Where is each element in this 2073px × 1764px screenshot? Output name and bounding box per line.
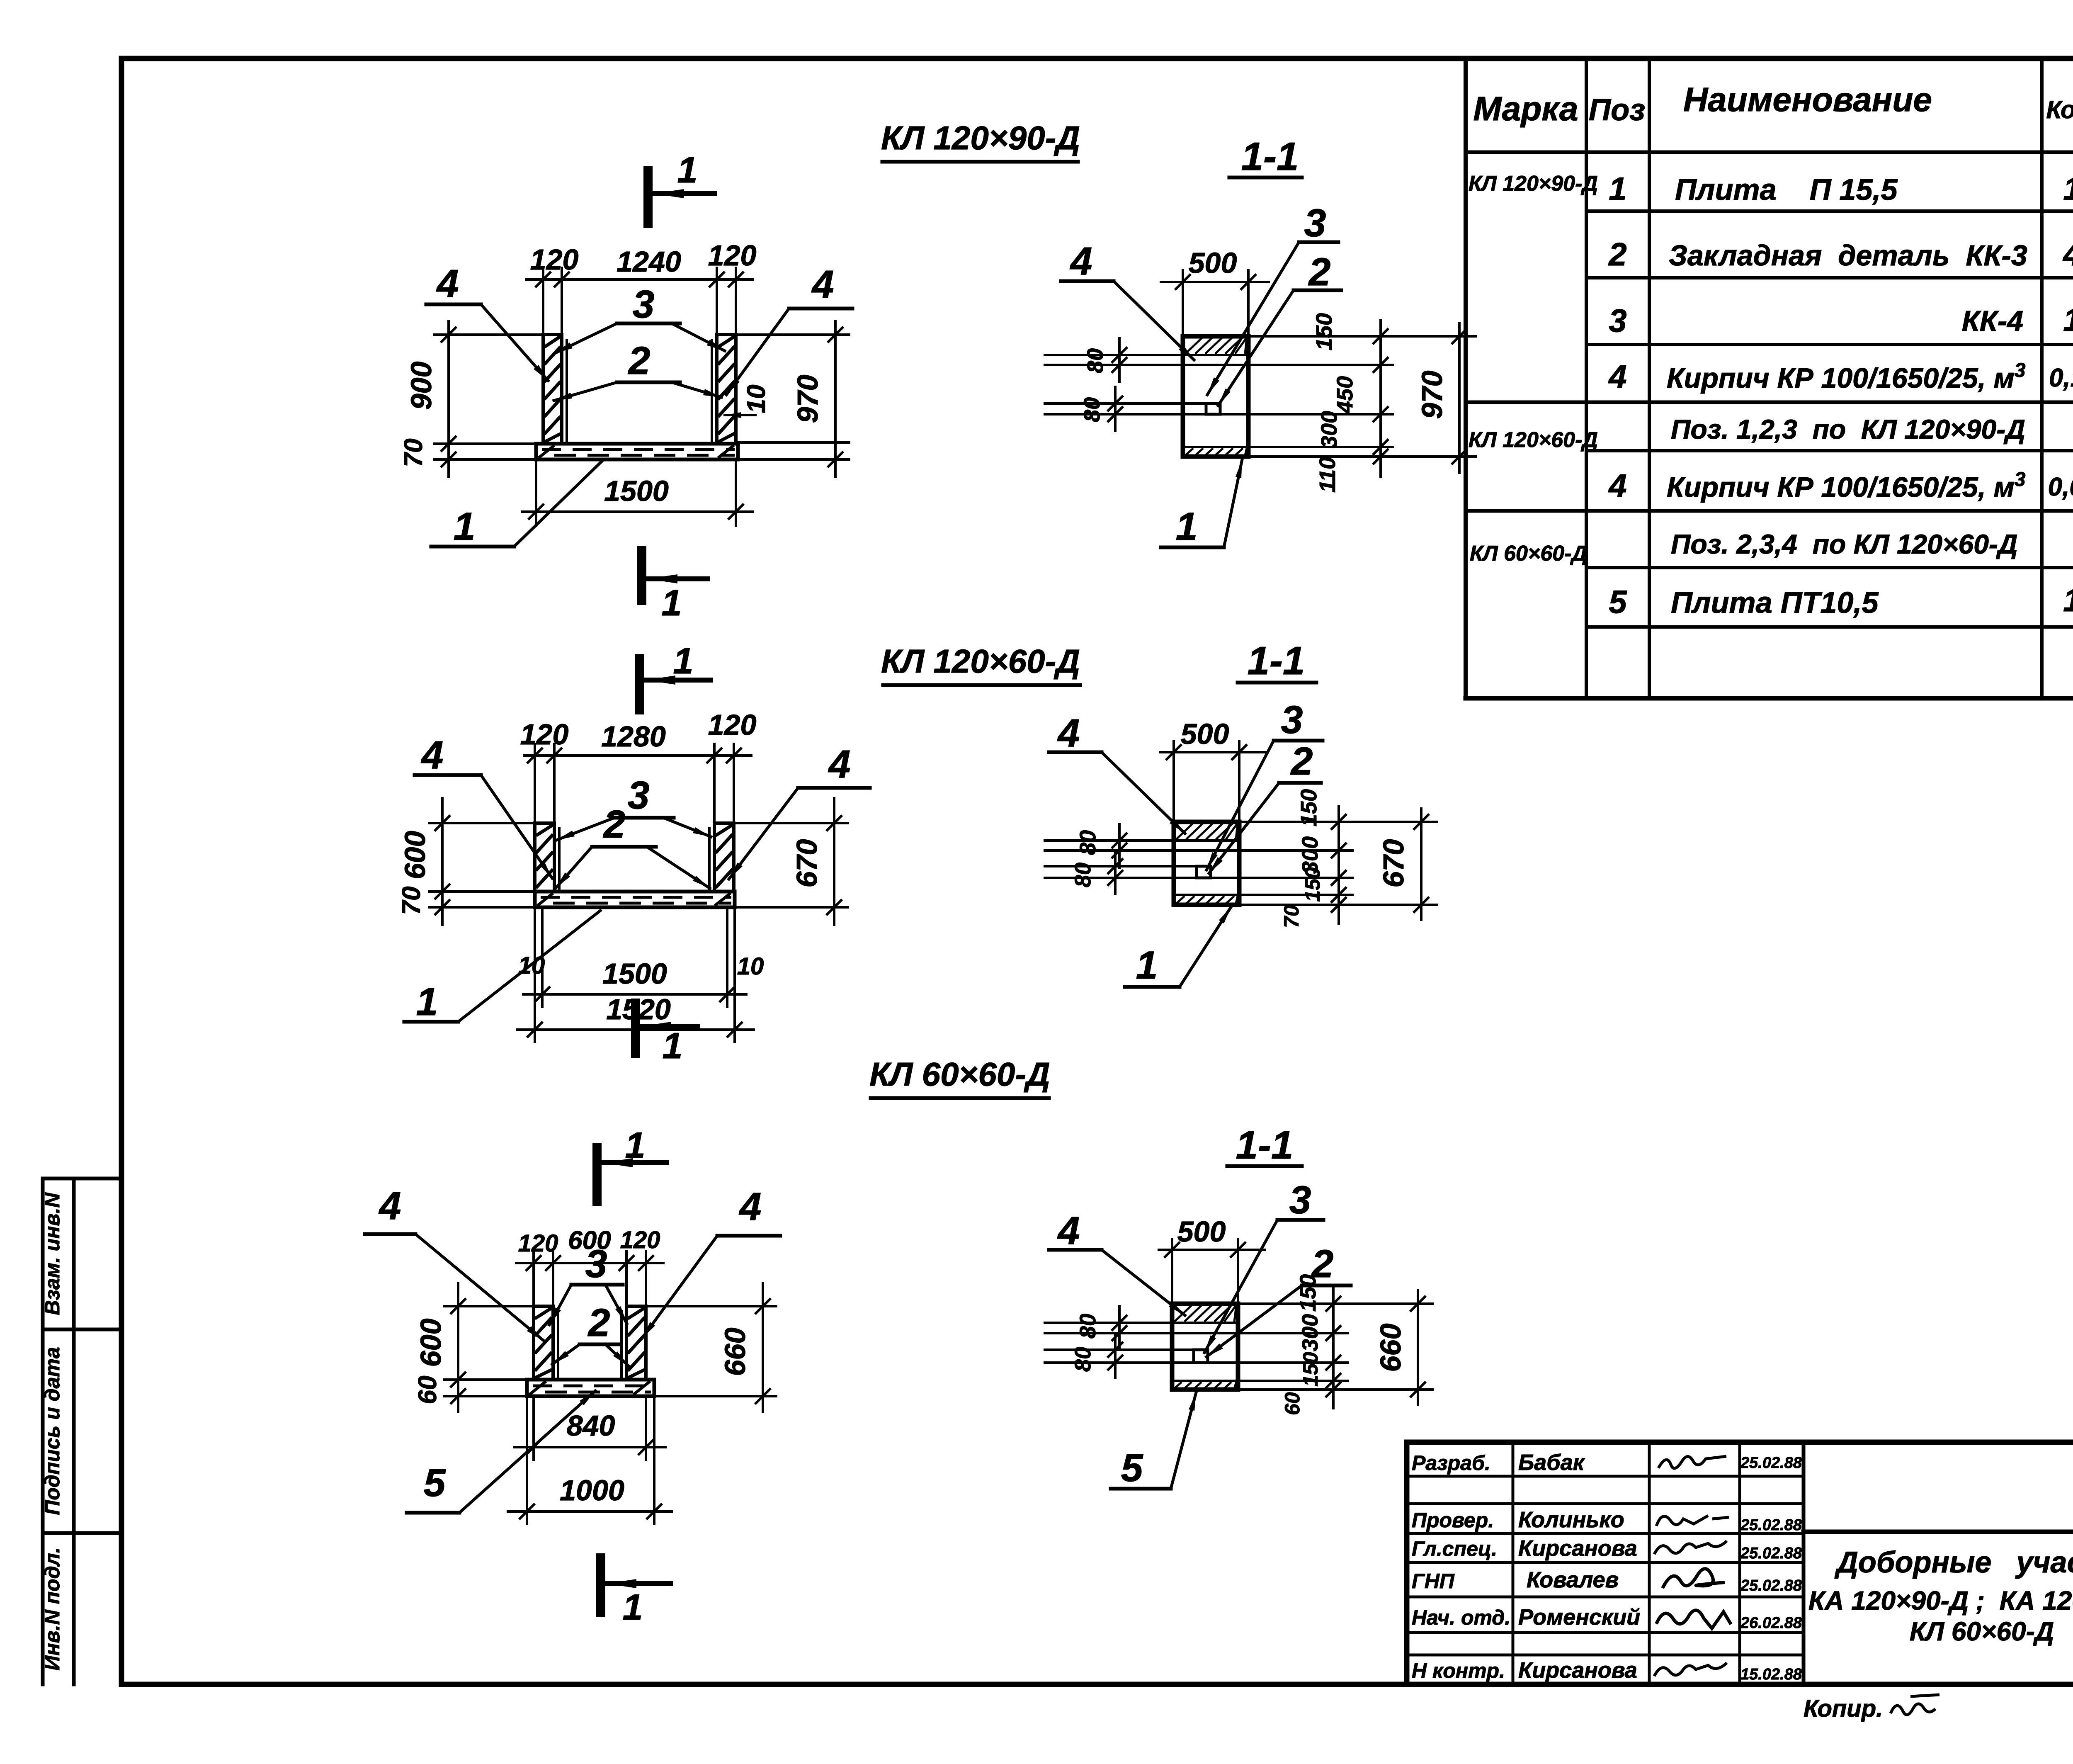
drawing1 left dimension 900 70 <box>447 321 450 477</box>
svg-text:0,11: 0,11 <box>2049 364 2073 392</box>
svg-text:3: 3 <box>1304 201 1326 245</box>
section1-1 (D2) right dim chain 150 300 150 70 <box>1239 821 1437 823</box>
svg-text:10: 10 <box>742 385 771 413</box>
svg-text:150: 150 <box>1301 867 1324 902</box>
svg-text:Кирсанова: Кирсанова <box>1518 1658 1637 1683</box>
svg-text:1: 1 <box>625 1125 646 1166</box>
drawing1 right wall plaster line <box>711 340 713 444</box>
svg-text:Плита ПТ10,5: Плита ПТ10,5 <box>1671 586 1879 620</box>
svg-text:80: 80 <box>1080 397 1104 422</box>
svg-text:2: 2 <box>603 802 626 846</box>
svg-text:300: 300 <box>1317 411 1342 448</box>
drawing2 top section marker 1 <box>635 658 644 710</box>
svg-text:КЛ 60×60-Д: КЛ 60×60-Д <box>1470 542 1587 566</box>
svg-text:120: 120 <box>620 1227 660 1254</box>
svg-text:1: 1 <box>1609 170 1626 207</box>
svg-text:ГНП: ГНП <box>1412 1570 1455 1593</box>
svg-text:970: 970 <box>1416 371 1448 419</box>
svg-text:Гл.спец.: Гл.спец. <box>1412 1537 1497 1560</box>
drawing2 right dimension 670 <box>833 798 835 925</box>
drawing1 bottom slab <box>536 444 738 459</box>
svg-text:Кирсанова: Кирсанова <box>1518 1536 1637 1561</box>
svg-text:КЛ 60×60-Д: КЛ 60×60-Д <box>1910 1616 2054 1646</box>
svg-text:3: 3 <box>633 282 655 326</box>
svg-text:3: 3 <box>1609 302 1626 339</box>
drawing2 bottom dims 1500 1520 with 10 offsets <box>541 909 544 1007</box>
svg-text:3: 3 <box>1289 1178 1311 1222</box>
section1-1 (D3) embedded square <box>1194 1350 1208 1363</box>
drawing3 bottom dims 840 1000 <box>532 1398 535 1460</box>
svg-text:4: 4 <box>1057 1209 1080 1253</box>
svg-text:Поз: Поз <box>1589 92 1645 127</box>
svg-text:1240: 1240 <box>617 245 681 278</box>
svg-text:60: 60 <box>1281 1392 1304 1415</box>
svg-text:КЛ 120×90-Д: КЛ 120×90-Д <box>881 119 1080 156</box>
svg-text:110: 110 <box>1315 457 1340 493</box>
svg-text:1: 1 <box>2063 170 2073 207</box>
drawing1 left wall plaster line <box>566 340 568 444</box>
drawing2 left wall <box>535 823 554 892</box>
svg-text:80: 80 <box>1070 1347 1095 1372</box>
svg-text:КЛ 120×90-Д: КЛ 120×90-Д <box>1469 172 1598 196</box>
svg-text:1-1: 1-1 <box>1248 639 1305 683</box>
drawing1 bottom dimension 1500 <box>522 510 752 513</box>
section1-1 (D2) bottom band slab <box>1174 894 1239 896</box>
svg-text:5: 5 <box>1121 1446 1143 1490</box>
drawing2 right wall plaster line <box>708 828 711 892</box>
svg-text:26.02.88: 26.02.88 <box>1740 1614 1802 1632</box>
svg-text:КЛ 120×60-Д: КЛ 120×60-Д <box>1469 428 1598 452</box>
section1-1 (D3) right dim chain 150 300 150 60 <box>1238 1302 1432 1305</box>
svg-text:2: 2 <box>587 1301 610 1345</box>
svg-text:3: 3 <box>1281 698 1303 742</box>
svg-text:970: 970 <box>791 375 824 423</box>
svg-text:600: 600 <box>399 831 431 880</box>
svg-text:120: 120 <box>708 239 757 272</box>
left margin strip box <box>41 1178 45 1684</box>
svg-text:Н контр.: Н контр. <box>1412 1659 1505 1682</box>
svg-text:500: 500 <box>1177 1215 1226 1248</box>
svg-text:1: 1 <box>2063 582 2073 618</box>
svg-text:4: 4 <box>436 262 459 306</box>
svg-text:25.02.88: 25.02.88 <box>1740 1577 1802 1594</box>
svg-text:1-1: 1-1 <box>1236 1123 1294 1167</box>
stamp sig kolinko <box>1656 1516 1729 1526</box>
section1-1 (D2) body rect <box>1174 822 1239 905</box>
drawing1 right dimension 970 <box>834 321 837 477</box>
svg-text:Взам. инв.N: Взам. инв.N <box>41 1193 64 1315</box>
svg-text:4: 4 <box>1070 239 1092 283</box>
svg-text:1: 1 <box>677 149 698 190</box>
svg-text:1: 1 <box>662 582 682 623</box>
svg-text:80: 80 <box>1070 863 1095 887</box>
stamp outer box <box>1407 1442 2073 1684</box>
svg-text:1: 1 <box>1136 943 1158 987</box>
svg-text:Поз. 2,3,4 по КЛ 120×60-Д: Поз. 2,3,4 по КЛ 120×60-Д <box>1671 529 2018 559</box>
section1-1 (D1) embedded square KK-4 <box>1206 403 1220 414</box>
svg-text:Доборные участки: Доборные участки <box>1834 1546 2073 1579</box>
parts table grid <box>1464 61 1468 698</box>
svg-text:1: 1 <box>623 1587 643 1628</box>
svg-text:1: 1 <box>2063 301 2073 338</box>
svg-text:2: 2 <box>1308 250 1331 294</box>
section1-1 (D1) dim 500 <box>1161 281 1269 283</box>
svg-text:4: 4 <box>2062 236 2073 272</box>
section1-1 (D2) dim 500 <box>1160 751 1267 753</box>
svg-text:Колинько: Колинько <box>1518 1507 1624 1532</box>
section1-1 (D1) bottom band slab <box>1183 446 1248 448</box>
drawing2 right wall <box>714 823 734 892</box>
svg-text:Нач. отд.: Нач. отд. <box>1412 1606 1510 1629</box>
svg-text:4: 4 <box>379 1184 401 1228</box>
section1-1 (D1) left ext lines and 80 dims <box>1045 354 1183 356</box>
svg-text:150: 150 <box>1312 313 1337 350</box>
svg-text:120: 120 <box>520 718 569 751</box>
svg-text:2: 2 <box>628 339 651 383</box>
svg-text:1: 1 <box>454 505 476 549</box>
drawing3 bottom slab <box>527 1380 654 1396</box>
drawing2 bottom slab <box>535 892 735 907</box>
drawing3 left dimension 600 60 <box>457 1283 459 1412</box>
svg-text:2: 2 <box>1608 236 1626 272</box>
svg-text:660: 660 <box>719 1328 751 1376</box>
svg-text:2: 2 <box>1311 1242 1334 1286</box>
svg-text:15.02.88: 15.02.88 <box>1740 1666 1802 1683</box>
svg-text:Инв.N подл.: Инв.N подл. <box>41 1547 64 1670</box>
svg-text:25.02.88: 25.02.88 <box>1740 1454 1802 1472</box>
svg-text:120: 120 <box>518 1230 558 1257</box>
svg-text:4: 4 <box>739 1185 762 1229</box>
section1-1 (D2) embedded square <box>1197 866 1211 878</box>
svg-text:КЛ 60×60-Д: КЛ 60×60-Д <box>869 1056 1050 1093</box>
svg-text:120: 120 <box>708 709 757 741</box>
svg-text:450: 450 <box>1333 376 1357 414</box>
svg-text:1000: 1000 <box>560 1474 624 1506</box>
svg-text:3: 3 <box>628 773 650 817</box>
svg-text:Наименование: Наименование <box>1683 81 1932 119</box>
section1-1 (D3) body rect <box>1172 1304 1238 1390</box>
section1-1 (D1) right dim chain 150 450 300 110 <box>1248 335 1476 338</box>
svg-text:Кирпич КР 100/1650/25, м3: Кирпич КР 100/1650/25, м3 <box>1667 360 2026 394</box>
svg-text:1-1: 1-1 <box>1241 134 1299 179</box>
stamp sig babak <box>1658 1456 1726 1468</box>
stamp left grid <box>1407 1475 1804 1478</box>
svg-text:4: 4 <box>421 733 444 777</box>
svg-text:900: 900 <box>405 362 437 410</box>
stamp sig kovalev <box>1663 1569 1725 1588</box>
svg-text:Плита П 15,5: Плита П 15,5 <box>1675 173 1898 207</box>
svg-text:80: 80 <box>1075 830 1100 855</box>
svg-text:Подпись и дата: Подпись и дата <box>41 1347 64 1515</box>
section1-1 (D2) left ext lines and 80 dims <box>1045 839 1174 842</box>
svg-text:Марка: Марка <box>1473 90 1578 128</box>
stamp sig kirsanova1 <box>1654 1541 1727 1554</box>
svg-text:600: 600 <box>415 1319 447 1367</box>
section1-1 (D2) overall dim 670 <box>1420 809 1422 920</box>
drawing3 right wall plaster line <box>620 1311 623 1380</box>
svg-text:60: 60 <box>413 1376 442 1404</box>
drawing1 top dimension 120 1240 120 <box>527 278 752 281</box>
svg-text:КК-4: КК-4 <box>1962 305 2023 337</box>
svg-text:4: 4 <box>1608 467 1626 504</box>
svg-text:Кол.: Кол. <box>2046 96 2073 124</box>
section1-1 (D3) bottom band slab <box>1172 1380 1238 1382</box>
drawing3 right dimension 660 <box>762 1283 764 1412</box>
svg-text:500: 500 <box>1189 247 1237 279</box>
drawing2 left dimension 600 70 <box>441 798 444 925</box>
section1-1 (D3) dim 500 <box>1159 1249 1265 1251</box>
svg-text:Роменский: Роменский <box>1518 1605 1640 1630</box>
drawing3 top dimension 120 600 120 <box>516 1262 663 1264</box>
drawing3 left wall <box>534 1306 553 1380</box>
svg-text:Копир.: Копир. <box>1804 1695 1883 1722</box>
stamp sig kirsanova2 <box>1654 1663 1727 1676</box>
svg-text:КА 120×90-Д ; КА 120×60-Д ;: КА 120×90-Д ; КА 120×60-Д ; <box>1808 1586 2073 1616</box>
svg-text:КЛ 120×60-Д: КЛ 120×60-Д <box>881 643 1080 680</box>
section1-1 (D3) left ext lines and 80 dims <box>1045 1322 1172 1324</box>
svg-text:80: 80 <box>1083 348 1108 373</box>
svg-text:0,07: 0,07 <box>2048 473 2073 501</box>
svg-text:840: 840 <box>567 1409 615 1442</box>
svg-text:1: 1 <box>1176 505 1198 549</box>
svg-text:1: 1 <box>663 1025 683 1066</box>
section1-1 (D1) top band plita <box>1185 338 1202 354</box>
drawing1 bottom section marker 1 <box>637 550 646 600</box>
drawing3 left wall plaster line <box>557 1311 559 1380</box>
kopir signature <box>1891 1695 1939 1715</box>
drawing3 right wall <box>626 1306 646 1380</box>
section1-1 (D1) overall dim 970 <box>1458 323 1461 473</box>
svg-text:5: 5 <box>424 1461 446 1505</box>
svg-text:150: 150 <box>1299 1352 1322 1387</box>
svg-text:3: 3 <box>585 1242 607 1286</box>
svg-text:Кирпич КР 100/1650/25, м3: Кирпич КР 100/1650/25, м3 <box>1667 469 2026 503</box>
svg-text:25.02.88: 25.02.88 <box>1740 1516 1802 1534</box>
svg-text:1500: 1500 <box>602 957 667 990</box>
svg-text:1: 1 <box>673 640 694 681</box>
svg-text:70: 70 <box>1280 905 1303 928</box>
drawing1 top section marker 1 <box>643 171 653 224</box>
svg-text:Бабак: Бабак <box>1518 1450 1585 1475</box>
drawing1 right wall <box>717 335 736 444</box>
svg-text:Закладная деталь КК-3: Закладная деталь КК-3 <box>1669 239 2027 272</box>
drawing2 top dimension 120 1280 120 <box>524 754 751 757</box>
svg-text:Ковалев: Ковалев <box>1527 1567 1619 1592</box>
svg-text:4: 4 <box>1608 358 1626 395</box>
section1-1 (D2) top band plita <box>1176 823 1193 839</box>
svg-text:Провер.: Провер. <box>1412 1509 1494 1532</box>
svg-text:Разраб.: Разраб. <box>1412 1451 1490 1475</box>
svg-text:4: 4 <box>828 742 851 786</box>
section1-1 (D3) overall dim 660 <box>1417 1290 1419 1405</box>
drawing3 top section marker 1 <box>592 1148 602 1202</box>
svg-text:670: 670 <box>1377 839 1410 888</box>
svg-text:660: 660 <box>1374 1324 1407 1372</box>
svg-text:4: 4 <box>811 262 834 306</box>
svg-text:70: 70 <box>397 887 426 915</box>
stamp sig romenskiy <box>1656 1610 1731 1628</box>
svg-text:670: 670 <box>791 839 823 888</box>
drawing1 left wall <box>543 335 562 444</box>
svg-text:1280: 1280 <box>601 720 666 753</box>
svg-text:25.02.88: 25.02.88 <box>1740 1545 1802 1562</box>
section1-1 (D1) body rect <box>1183 336 1248 457</box>
drawing3 bottom section marker 1 <box>596 1558 605 1612</box>
svg-text:5: 5 <box>1609 583 1627 620</box>
svg-text:2: 2 <box>1290 739 1313 783</box>
svg-text:1500: 1500 <box>604 475 669 507</box>
svg-text:10: 10 <box>737 953 764 980</box>
stamp right area grid <box>1804 1530 2073 1534</box>
svg-text:500: 500 <box>1181 718 1229 750</box>
section1-1 (D3) top band plita <box>1175 1305 1192 1322</box>
svg-text:120: 120 <box>530 243 579 276</box>
svg-text:80: 80 <box>1075 1314 1100 1339</box>
drawing2 bottom section marker 1 <box>631 1003 640 1053</box>
svg-text:150: 150 <box>1296 789 1321 826</box>
drawing2 left wall plaster line <box>558 828 561 892</box>
svg-text:1: 1 <box>416 980 438 1024</box>
svg-text:70: 70 <box>399 439 428 467</box>
svg-text:300: 300 <box>1298 1314 1323 1351</box>
svg-text:4: 4 <box>1057 711 1080 755</box>
svg-text:Поз. 1,2,3 по КЛ 120×90-Д: Поз. 1,2,3 по КЛ 120×90-Д <box>1671 414 2025 445</box>
